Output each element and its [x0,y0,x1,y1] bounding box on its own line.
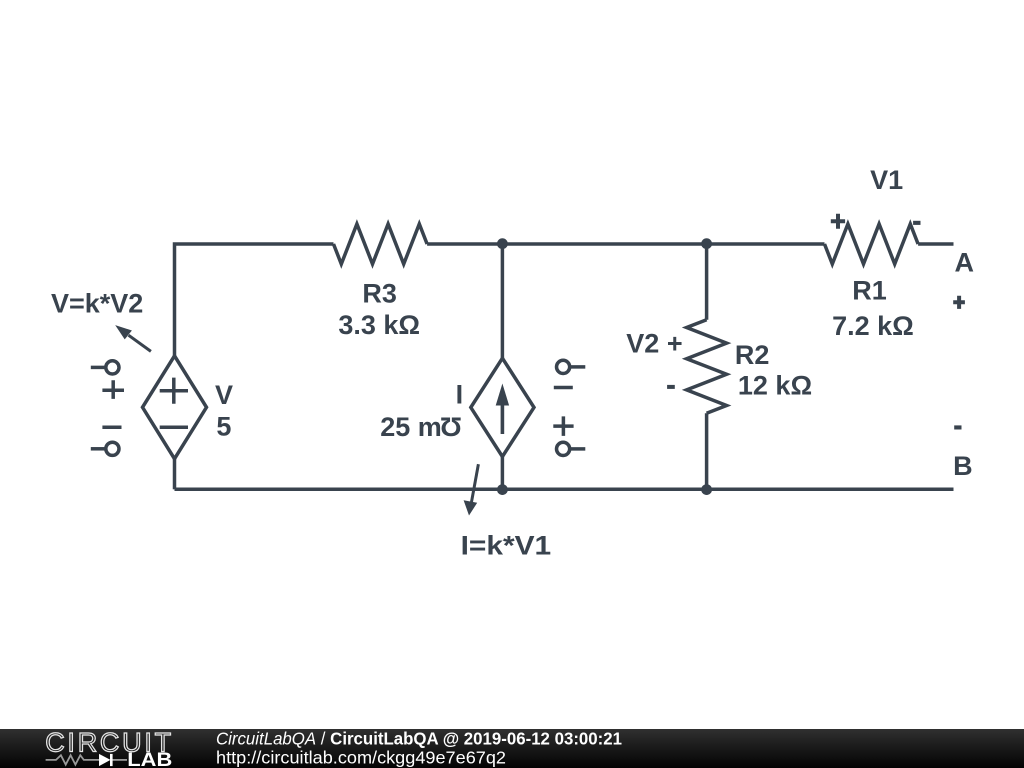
terminal circle bottom-left of V source [106,442,119,455]
svg-text:3.3 kΩ: 3.3 kΩ [338,310,420,340]
terminal stub top-left [91,366,106,370]
resistor R2 [687,320,727,414]
resistor R1 [825,224,919,264]
plus mark at R1 left [831,214,845,229]
voltage source minus sign [160,425,188,429]
plus mark below A [953,296,965,309]
svg-text:V=k*V2: V=k*V2 [51,289,143,319]
wire top middle (R3 to R1) [427,242,824,246]
plus sign left terminal [102,380,124,399]
wire top right (R1 to terminal A) [918,242,953,246]
svg-text:R3: R3 [362,278,397,308]
node junction bottom at current source [497,484,508,495]
logo diode [99,754,111,766]
resistor R3 [334,224,428,264]
svg-text:I=k*V1: I=k*V1 [461,531,552,561]
svg-text:B: B [953,451,973,481]
plus sign right terminal [553,416,573,436]
wire middle vertical (top node to current source) [501,244,505,358]
wire below V source [173,459,177,490]
current source I1 diamond [471,358,534,456]
svg-text:http://circuitlab.com/ckgg49e7: http://circuitlab.com/ckgg49e7e67q2 [216,747,506,767]
wire R2 lower lead [705,413,709,489]
svg-text:V2 +: V2 + [626,329,682,359]
annotation arrow for I=k*V1 [472,464,479,502]
terminal stub top right [570,365,585,369]
minus sign right terminal [554,386,573,390]
minus mark at R1 right [913,221,920,225]
node junction top at R3/current source [497,238,508,249]
minus mark below V2 [667,385,675,389]
annotation arrow for V=k*V2 [129,335,151,351]
arrowhead V=k*V2 [115,325,132,339]
logo resistor squiggle [46,755,99,764]
wire R2 upper lead [705,244,709,320]
svg-text:A: A [955,247,975,277]
current source arrow [501,405,505,434]
minus sign left terminal [102,425,121,429]
wire bottom [175,488,954,492]
voltage source plus sign [160,378,188,404]
svg-text:R2: R2 [735,340,770,370]
minus mark above B [954,425,961,429]
svg-text:12 kΩ: 12 kΩ [738,371,812,401]
terminal circle bottom right of current source [557,442,570,455]
svg-text:LAB: LAB [127,750,172,768]
svg-text:V: V [215,380,233,410]
svg-text:V1: V1 [870,165,903,195]
arrowhead I=k*V1 [464,500,478,515]
wire below current source [501,457,505,490]
node junction bottom at R2 [701,484,712,495]
terminal circle top right of current source [557,360,570,373]
svg-text:5: 5 [216,412,231,442]
wire left vertical (top-left corner to V source top) [175,244,334,356]
svg-text:CircuitLabQA / CircuitLabQA @: CircuitLabQA / CircuitLabQA @ 2019-06-12… [216,728,622,748]
voltage source V diamond [143,356,207,459]
terminal stub bottom-left [91,447,106,451]
svg-text:I: I [456,379,464,409]
logo lead after diode [111,759,127,761]
terminal stub bottom right [570,447,585,451]
svg-text:R1: R1 [852,276,887,306]
svg-text:7.2 kΩ: 7.2 kΩ [832,311,914,341]
node junction top at R2 [701,238,712,249]
svg-text:Ω: Ω [440,411,462,441]
svg-text:25 m: 25 m [380,412,442,442]
terminal circle top-left of V source [106,361,119,374]
